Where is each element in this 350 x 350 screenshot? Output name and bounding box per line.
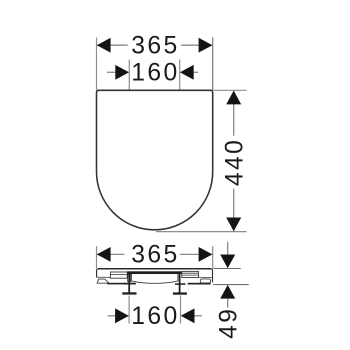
tail line right of top 160 [193,71,198,73]
extension line left of bottom 365 dimension [96,246,98,268]
extension line top of 49 dimension [213,268,241,270]
tail line left of bottom 160 [108,315,116,317]
arrow left of top 160 (pointing right) [115,65,129,80]
tail line left of top 160 [107,71,116,73]
arrow left of bottom 365 [97,247,111,262]
arrow bottom of 440 (pointing down) [226,218,241,232]
side view: left bumper foot [97,279,109,283]
extension line right of bottom 365 dimension [212,246,214,268]
left fixing bolt stem [128,272,130,295]
svg-text:440: 440 [221,138,248,186]
extension line bottom of 440 dimension [156,231,247,233]
arrow bottom of 49 (pointing up) [220,285,235,299]
dimension line bottom 365 (right segment) [180,253,213,255]
side view: left hinge block [110,272,127,278]
extension line left of top 365 dimension [96,38,98,91]
left fixing bolt socket [128,274,131,281]
arrow top of 440 (pointing up) [226,91,241,105]
49 dimension upper tail [227,242,229,255]
right fixing bolt washer [175,283,185,285]
49 dimension lower tail [227,298,229,307]
svg-text:365: 365 [131,242,179,269]
tail line right of bottom 160 [194,315,202,317]
extension line right of bottom 160 dimension [180,296,182,324]
arrow top of 49 (pointing down) [220,255,235,269]
svg-text:160: 160 [131,303,179,330]
side view: right hinge block [182,271,199,277]
side view: seat dish between hinges [131,274,178,283]
arrow right of bottom 365 [199,247,213,262]
side view: hinge bar between bolts (dark) [127,271,182,274]
dimension line top 365 (right segment) [181,44,213,46]
right fixing bolt stem [179,272,181,295]
arrow left of top 365 [97,38,111,53]
side view: right hinge block inner lines [182,272,199,274]
side view: dark base segment right [188,283,211,285]
extension line right of top 365 dimension [212,38,214,91]
arrow right of top 160 (pointing left) [180,65,194,80]
extension line left of bottom 160 dimension [128,296,130,324]
side view: right damper pill [200,279,210,283]
side view: dark base segment left [107,283,136,285]
arrow right of top 365 [199,38,213,53]
left fixing bolt wing nut [122,292,136,294]
extension line top of 440 dimension [214,89,247,91]
svg-text:49: 49 [215,307,242,339]
dimension line top 365 (left segment) [97,44,128,46]
side view: lid right end edge [211,269,212,283]
arrow left of bottom 160 (pointing right) [115,308,129,323]
seat lid outline (top view) [97,90,213,230]
dimension line 440 (upper segment) [233,91,235,136]
svg-text:160: 160 [131,60,179,87]
dimension line 440 (lower segment) [233,189,235,232]
side view: lid left end edge [97,269,98,278]
side view: right end lower line [199,277,213,279]
side view: left hinge block inner line [110,274,127,276]
extension line left of top 160 dimension [128,60,130,90]
extension line bottom of 49 dimension [213,284,249,286]
side view: lid top edge [98,268,212,270]
extension line right of top 160 dimension [179,60,181,90]
right fixing bolt wing nut [173,292,187,294]
svg-text:365: 365 [131,33,179,60]
side view: lid bottom line left [97,276,111,278]
dimension line bottom 365 (left segment) [97,253,125,255]
arrow right of bottom 160 (pointing left) [181,308,195,323]
left fixing bolt washer [123,283,136,285]
